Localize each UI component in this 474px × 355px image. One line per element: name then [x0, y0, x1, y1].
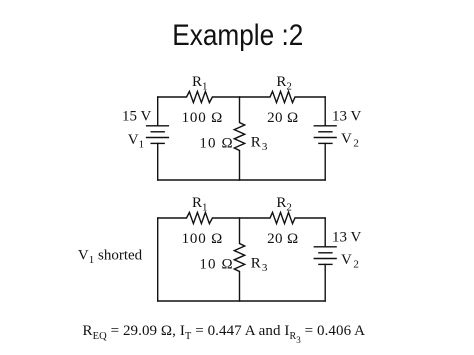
- svg-text:13 V: 13 V: [332, 230, 361, 246]
- svg-text:10 Ω: 10 Ω: [199, 135, 232, 151]
- svg-text:20 Ω: 20 Ω: [267, 110, 298, 126]
- svg-text:15 V: 15 V: [122, 109, 151, 125]
- svg-text:100 Ω: 100 Ω: [182, 110, 223, 126]
- svg-text:20 Ω: 20 Ω: [267, 231, 298, 247]
- svg-text:100 Ω: 100 Ω: [182, 231, 223, 247]
- svg-text:13 V: 13 V: [332, 109, 361, 125]
- svg-text:V1 shorted: V1 shorted: [78, 247, 143, 266]
- svg-text:Example :2: Example :2: [172, 19, 303, 52]
- svg-text:10 Ω: 10 Ω: [199, 256, 232, 272]
